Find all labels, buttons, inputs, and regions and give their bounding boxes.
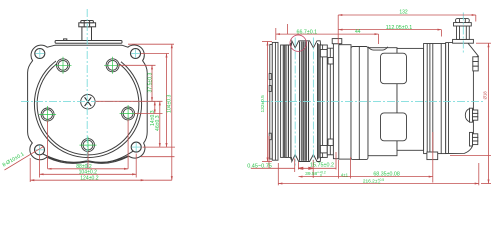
svg-text:132±0.5: 132±0.5	[260, 95, 266, 113]
svg-text:4±1: 4±1	[341, 172, 349, 177]
svg-text:15.75±0.2: 15.75±0.2	[310, 163, 334, 169]
svg-text:132: 132	[399, 10, 408, 16]
svg-text:112.05±0.1: 112.05±0.1	[386, 25, 413, 31]
svg-text:124±0.2: 124±0.2	[80, 176, 99, 182]
svg-text:37.5±0.3: 37.5±0.3	[147, 73, 153, 93]
svg-text:Ø18: Ø18	[482, 91, 487, 100]
svg-text:66.7±0.1: 66.7±0.1	[297, 29, 318, 35]
svg-text:0.45~0.75: 0.45~0.75	[247, 163, 272, 169]
svg-text:44: 44	[355, 29, 361, 35]
svg-text:104±0.3: 104±0.3	[167, 94, 173, 113]
svg-text:68.35±0.08: 68.35±0.08	[373, 172, 400, 178]
svg-text:46±0.3: 46±0.3	[155, 115, 161, 131]
